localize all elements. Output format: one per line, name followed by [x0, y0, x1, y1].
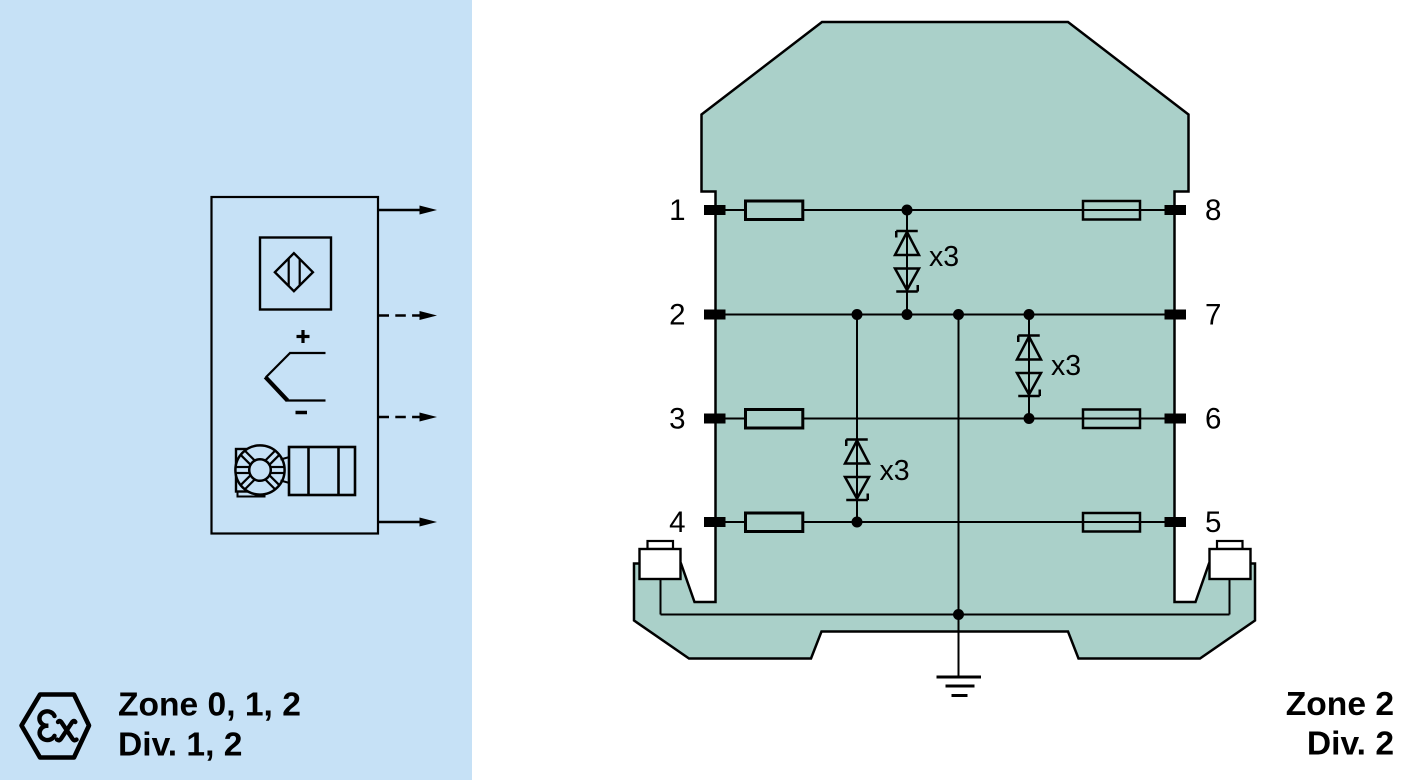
contact switch blade (thick)	[265, 377, 287, 401]
row 1 wire	[726, 209, 746, 211]
Ex logo epsilon	[39, 711, 54, 740]
ground bus stub right	[1229, 579, 1231, 615]
earth ground symbol	[937, 676, 982, 679]
svg-text:3: 3	[669, 403, 685, 436]
vertical wire x1029 rows 2-3	[1028, 315, 1030, 419]
contact switch upper diagonal	[266, 353, 291, 378]
svg-text:4: 4	[669, 506, 685, 539]
plus label	[297, 335, 310, 338]
suppressor diode chain A (rows 1-2)	[895, 231, 919, 292]
hazardous area blue zone background	[0, 0, 472, 780]
turbine sensor base tab	[238, 492, 265, 497]
field device box	[212, 197, 379, 534]
diamond chord right	[299, 259, 301, 285]
svg-text:5: 5	[1205, 506, 1221, 539]
turbine wheel spokes	[236, 451, 285, 490]
contact switch bottom tail	[287, 399, 326, 401]
ground bus wire	[661, 614, 1230, 616]
DIN clamp left body	[640, 549, 681, 579]
terminal 8	[1165, 205, 1187, 215]
Ex logo x	[58, 721, 77, 740]
proximity sensor diamond	[275, 253, 313, 291]
svg-text:Zone 2: Zone 2	[1286, 686, 1394, 723]
svg-text:Div. 2: Div. 2	[1307, 726, 1394, 763]
svg-text:2: 2	[669, 299, 685, 332]
resistor R4	[746, 513, 803, 532]
svg-text:x3: x3	[929, 241, 959, 273]
svg-text:6: 6	[1205, 403, 1221, 436]
fuse F4	[1083, 513, 1140, 532]
terminal 1	[704, 205, 726, 215]
row 3 wire	[726, 418, 746, 420]
svg-text:8: 8	[1205, 194, 1221, 227]
svg-text:x3: x3	[1051, 350, 1081, 382]
fuse F1	[1083, 201, 1140, 220]
svg-text:Zone 0, 1, 2: Zone 0, 1, 2	[118, 687, 301, 724]
arrow 2 dashed	[379, 314, 421, 316]
terminal 5	[1165, 517, 1187, 527]
junction dot ground bus	[953, 609, 964, 620]
DIN clamp left cap	[648, 541, 674, 549]
contact switch top tail	[290, 352, 326, 354]
turbine connector top	[281, 457, 290, 460]
proximity sensor symbol square	[260, 238, 331, 310]
svg-text:x3: x3	[880, 455, 910, 487]
row 2 wire	[726, 314, 1165, 316]
junction dot row4	[852, 517, 863, 528]
terminal 6	[1165, 414, 1187, 424]
junction dot row3	[1024, 413, 1035, 424]
resistor R1	[746, 201, 803, 220]
terminal 7	[1165, 310, 1187, 320]
ground bus stub left	[660, 579, 662, 615]
diamond chord left	[288, 259, 290, 286]
Ex hexagon logo	[22, 695, 90, 758]
terminal 2	[704, 310, 726, 320]
junction dots row2	[852, 309, 863, 320]
module body (green DIN-rail device)	[634, 22, 1255, 659]
resistor R3	[746, 410, 803, 429]
vertical wire x857 rows 2-4	[856, 315, 858, 523]
svg-text:7: 7	[1205, 299, 1221, 332]
terminal 4	[704, 517, 726, 527]
turbine wheel inner circle	[249, 459, 271, 481]
arrow 3 dashed	[379, 416, 421, 418]
arrow 1 solid	[378, 209, 421, 211]
turbine 3-cell block	[289, 447, 355, 495]
fuse F3	[1083, 410, 1140, 429]
turbine wheel outer circle	[235, 445, 284, 494]
suppressor diode chain B (rows 2-3)	[1017, 336, 1041, 397]
turbine connector bottom	[281, 481, 290, 484]
vertical wire x907 rows 1-2	[906, 210, 908, 315]
DIN clamp right body	[1210, 549, 1251, 579]
vertical ground wire x958.5	[958, 315, 960, 678]
svg-text:1: 1	[669, 194, 685, 227]
row 4 wire	[726, 521, 746, 523]
arrow 4 solid	[378, 521, 421, 523]
terminal 3	[704, 414, 726, 424]
svg-text:Div. 1, 2: Div. 1, 2	[118, 727, 242, 764]
turbine sensor back square	[236, 449, 268, 492]
minus label	[296, 411, 308, 415]
junction dot row1	[902, 205, 913, 216]
DIN clamp right cap	[1217, 541, 1243, 549]
suppressor diode chain C (rows 3-4)	[845, 440, 869, 501]
